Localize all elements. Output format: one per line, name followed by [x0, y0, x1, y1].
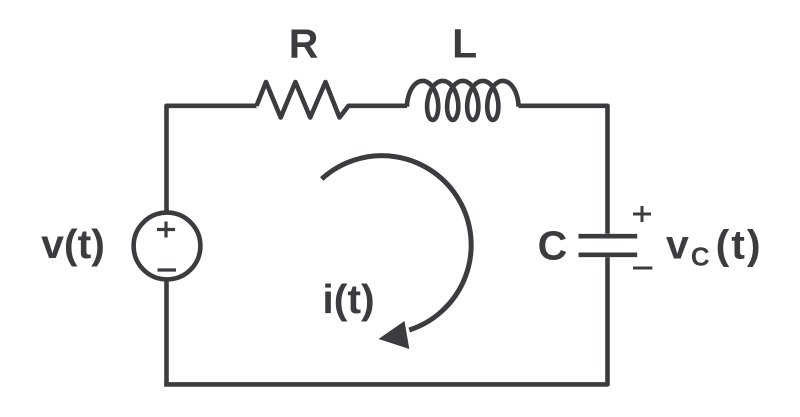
capacitor C bottom plate	[579, 252, 638, 257]
minus sign inside source	[158, 268, 177, 271]
plus sign inside source	[157, 222, 175, 238]
resistor R	[257, 82, 408, 118]
wire left-bottom segment	[164, 281, 169, 385]
loop current arc	[322, 156, 471, 330]
plus sign at capacitor	[633, 206, 651, 222]
svg-text:vC(t): vC(t)	[666, 222, 763, 272]
svg-text:C: C	[538, 223, 568, 269]
wire bottom	[164, 257, 607, 384]
loop current arrowhead	[379, 321, 410, 349]
svg-text:i(t): i(t)	[322, 276, 374, 322]
minus sign at capacitor	[633, 267, 652, 270]
capacitor C top plate	[579, 234, 638, 239]
voltage source V1 circle	[134, 213, 201, 280]
wire top-left segment	[167, 106, 257, 212]
inductor L	[407, 81, 519, 120]
svg-text:R: R	[289, 20, 319, 66]
svg-text:v(t): v(t)	[41, 221, 105, 267]
wire top-right segment	[519, 106, 608, 234]
svg-text:L: L	[452, 20, 477, 66]
